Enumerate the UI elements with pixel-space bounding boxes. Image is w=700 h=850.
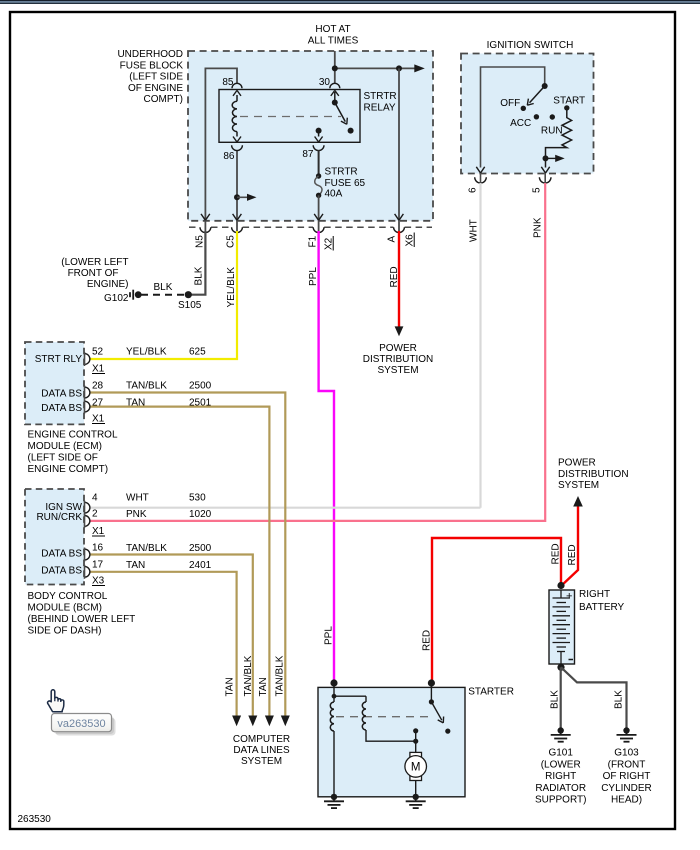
relay pin 86 connector bump — [232, 145, 243, 150]
svg-text:RUN/CRK: RUN/CRK — [36, 512, 82, 523]
wire RED battery to power distribution — [561, 506, 578, 586]
svg-text:STARTER: STARTER — [468, 687, 514, 698]
svg-text:FUSE BLOCK: FUSE BLOCK — [120, 60, 184, 71]
wire BLK from pin N5 to splice S105 — [189, 231, 205, 295]
svg-text:HEAD): HEAD) — [611, 795, 642, 806]
svg-text:2401: 2401 — [189, 560, 212, 571]
svg-text:PNK: PNK — [532, 217, 543, 238]
wire PPL from pin F1 to starter — [319, 231, 334, 683]
starter dashed link — [336, 716, 432, 718]
ignition resistor RUN-START — [546, 108, 572, 168]
svg-text:52: 52 — [92, 347, 104, 358]
fuse block bottom pin arrows — [201, 214, 205, 220]
svg-text:5: 5 — [532, 187, 543, 193]
svg-text:MODULE (ECM): MODULE (ECM) — [28, 441, 102, 452]
relay pin 30 terminal — [334, 92, 336, 103]
BCM label — [28, 591, 136, 637]
svg-text:2501: 2501 — [189, 398, 212, 409]
svg-text:SYSTEM: SYSTEM — [377, 365, 418, 376]
wire YEL/BLK from pin C5 to ECM pin 52 — [90, 231, 237, 359]
svg-text:RED: RED — [422, 630, 433, 651]
ignition switch arm pivot — [542, 83, 548, 89]
svg-text:va263530: va263530 — [57, 718, 105, 730]
label HOT AT ALL TIMES — [308, 24, 359, 46]
svg-text:FUSE 65: FUSE 65 — [325, 178, 366, 189]
svg-text:263530: 263530 — [18, 814, 52, 825]
svg-text:40A: 40A — [325, 189, 343, 200]
svg-text:COMPT): COMPT) — [144, 94, 183, 105]
fuse STRTR FUSE 65 40A element — [318, 150, 320, 176]
window top edge bar — [0, 0, 700, 1]
relay switch arm — [335, 103, 346, 122]
power distribution system label (top) — [363, 343, 434, 376]
svg-text:START: START — [553, 96, 585, 107]
svg-text:A: A — [387, 236, 398, 243]
ignition switch box — [461, 54, 594, 174]
fuse block connector face dashed line — [189, 226, 200, 228]
svg-text:UNDERHOOD: UNDERHOOD — [117, 49, 183, 60]
svg-text:X1: X1 — [92, 364, 105, 375]
svg-text:RED: RED — [567, 544, 578, 565]
G103 label — [601, 748, 652, 806]
wire BLK battery to G103 — [561, 667, 627, 728]
svg-text:C5: C5 — [225, 235, 236, 248]
svg-text:16: 16 — [92, 542, 104, 553]
svg-text:RED: RED — [550, 543, 561, 564]
starter motor M — [410, 752, 422, 757]
starter motor ground wire — [415, 781, 417, 797]
mouse cursor — [48, 690, 64, 712]
svg-text:PNK: PNK — [126, 509, 147, 520]
relay pin 85 connector bump — [232, 83, 242, 88]
svg-text:4: 4 — [92, 493, 98, 504]
svg-text:ENGINE COMPT): ENGINE COMPT) — [28, 464, 109, 475]
svg-text:MODULE (BCM): MODULE (BCM) — [28, 603, 102, 614]
svg-text:X1: X1 — [92, 414, 105, 425]
splice S105 — [185, 291, 192, 298]
relay dashed actuation link — [240, 116, 341, 118]
svg-text:BLK: BLK — [614, 690, 625, 709]
svg-text:COMPUTER: COMPUTER — [233, 734, 290, 745]
svg-text:SYSTEM: SYSTEM — [241, 756, 282, 767]
svg-text:(BEHIND LOWER LEFT: (BEHIND LOWER LEFT — [28, 614, 136, 625]
wire PNK from BCM pin 2 to ignition pin 5 — [90, 183, 545, 521]
svg-text:STRTR: STRTR — [325, 167, 358, 178]
node junction on B+ at pin A column — [396, 65, 402, 71]
battery bottom terminal — [557, 651, 565, 653]
wire B+ horizontal branch with arrow to other circuits — [335, 67, 415, 69]
svg-text:17: 17 — [92, 560, 104, 571]
svg-text:YEL/BLK: YEL/BLK — [126, 347, 167, 358]
relay coil (pins 85-86) — [236, 95, 238, 101]
ECM box — [25, 342, 84, 424]
svg-text:SYSTEM: SYSTEM — [558, 480, 599, 491]
svg-text:YEL/BLK: YEL/BLK — [226, 267, 237, 308]
ground G101 — [558, 727, 564, 733]
svg-text:86: 86 — [223, 151, 235, 162]
wire RED battery to starter — [432, 538, 561, 683]
wire stubs through connector — [204, 220, 206, 231]
computer data lines system label — [233, 734, 290, 767]
battery plates — [560, 590, 562, 598]
svg-text:BODY CONTROL: BODY CONTROL — [28, 591, 108, 602]
starter switch arm from battery terminal — [430, 683, 432, 702]
svg-text:FRONT OF: FRONT OF — [68, 268, 119, 279]
junction and branch arrow on pin 86 wire — [234, 194, 240, 200]
connector bumps pins N5 C5 F1 A — [200, 227, 211, 232]
svg-text:85: 85 — [222, 77, 234, 88]
svg-text:30: 30 — [319, 77, 331, 88]
starter solenoid pull-in coil — [330, 702, 334, 731]
svg-text:WHT: WHT — [468, 219, 479, 242]
svg-text:M: M — [411, 761, 421, 773]
svg-text:DISTRIBUTION: DISTRIBUTION — [363, 354, 434, 365]
battery node top — [557, 582, 564, 589]
svg-text:OF ENGINE: OF ENGINE — [128, 83, 183, 94]
wire RED from pin A to power distribution — [398, 231, 400, 327]
svg-text:530: 530 — [189, 493, 206, 504]
right battery box — [549, 590, 575, 664]
svg-text:(LOWER LEFT: (LOWER LEFT — [61, 257, 128, 268]
svg-text:TAN/BLK: TAN/BLK — [126, 381, 167, 392]
underhood fuse block box — [188, 51, 433, 221]
svg-text:SUPPORT): SUPPORT) — [535, 795, 587, 806]
svg-text:DATA BS: DATA BS — [41, 403, 82, 414]
ECM label — [28, 430, 118, 476]
ignition switch internal wire to pin 6 — [481, 67, 545, 168]
svg-text:RELAY: RELAY — [364, 102, 396, 113]
svg-text:CYLINDER: CYLINDER — [601, 783, 652, 794]
starter switch fixed contact — [413, 728, 418, 733]
svg-text:OFF: OFF — [500, 98, 520, 109]
svg-text:G101: G101 — [548, 748, 573, 759]
svg-text:SIDE OF DASH): SIDE OF DASH) — [28, 626, 102, 637]
fuse label — [325, 167, 366, 200]
starter ground left — [331, 794, 337, 800]
wire fuse output to pin F1 — [318, 195, 320, 219]
starter terminal node RED — [428, 679, 435, 686]
underhood fuse block label — [117, 49, 183, 105]
svg-text:G103: G103 — [614, 748, 639, 759]
ignition output junction — [543, 155, 549, 161]
ignition branch arrow — [546, 157, 556, 159]
svg-text:G102: G102 — [104, 293, 129, 304]
svg-text:STRT RLY: STRT RLY — [35, 354, 83, 365]
svg-text:IGNITION SWITCH: IGNITION SWITCH — [487, 40, 574, 51]
svg-text:DATA BS: DATA BS — [41, 389, 82, 400]
tooltip shadow — [56, 718, 116, 736]
svg-text:2500: 2500 — [189, 381, 212, 392]
svg-text:RIGHT: RIGHT — [545, 771, 576, 782]
wire B+ feed from top into relay pin 30 — [334, 51, 336, 84]
svg-text:RED: RED — [389, 266, 400, 287]
svg-text:N5: N5 — [194, 235, 205, 248]
wire TAN 2501 from ECM pin 27 — [90, 407, 269, 716]
svg-text:PPL: PPL — [308, 267, 319, 286]
svg-text:(FRONT: (FRONT — [608, 759, 646, 770]
svg-text:1020: 1020 — [189, 509, 212, 520]
contact OFF — [521, 106, 526, 111]
battery label RIGHT BATTERY — [579, 589, 625, 613]
dashed BLK wire to G102 — [141, 294, 185, 296]
svg-text:X1: X1 — [92, 526, 105, 537]
contact START — [564, 105, 569, 110]
wire WHT from BCM pin 4 to ignition pin 6 — [90, 507, 481, 509]
ground G102 symbol — [135, 291, 142, 298]
svg-text:DISTRIBUTION: DISTRIBUTION — [558, 469, 629, 480]
contact RUN — [550, 114, 555, 119]
computer data lines arrows — [232, 716, 241, 727]
svg-text:DATA LINES: DATA LINES — [233, 745, 290, 756]
svg-text:TAN/BLK: TAN/BLK — [243, 655, 254, 696]
ignition switch arm to OFF — [530, 86, 545, 103]
wire TAN/BLK 2500 from BCM pin 16 — [90, 555, 253, 717]
wire TAN/BLK 2500 from ECM pin 28 — [90, 393, 285, 717]
svg-text:OF RIGHT: OF RIGHT — [603, 771, 651, 782]
svg-text:HOT AT: HOT AT — [315, 24, 350, 35]
battery node bottom — [557, 664, 564, 671]
starter coil return wire — [366, 730, 416, 741]
svg-text:TAN: TAN — [258, 677, 269, 696]
power distribution system label (right) — [558, 458, 629, 492]
starter terminal node PPL — [330, 679, 337, 686]
svg-text:2: 2 — [92, 508, 98, 519]
svg-text:6: 6 — [468, 187, 479, 193]
G102 label — [61, 257, 129, 304]
svg-text:TAN: TAN — [126, 398, 145, 409]
svg-text:BLK: BLK — [550, 690, 561, 709]
svg-text:87: 87 — [302, 149, 314, 160]
svg-text:ENGINE): ENGINE) — [87, 279, 129, 290]
svg-text:DATA BS: DATA BS — [41, 549, 82, 560]
svg-text:WHT: WHT — [126, 493, 149, 504]
starter relay label — [364, 91, 397, 113]
svg-text:S105: S105 — [178, 300, 202, 311]
starter switch rest contact — [445, 729, 450, 734]
wire pin A feed down — [398, 68, 400, 219]
svg-text:BLK: BLK — [194, 266, 205, 285]
svg-text:(LOWER: (LOWER — [541, 759, 581, 770]
svg-text:TAN: TAN — [126, 560, 145, 571]
svg-text:POWER: POWER — [379, 343, 417, 354]
svg-text:RIGHT: RIGHT — [579, 589, 610, 600]
svg-text:RUN: RUN — [541, 125, 563, 136]
starter ground right — [413, 794, 419, 800]
contact ACC — [534, 114, 539, 119]
svg-text:28: 28 — [92, 381, 104, 392]
svg-text:27: 27 — [92, 398, 104, 409]
wire BLK battery to G101 — [560, 667, 562, 728]
G101 label — [535, 748, 587, 806]
starter relay box — [219, 90, 360, 143]
svg-text:2500: 2500 — [189, 543, 212, 554]
svg-text:STRTR: STRTR — [364, 91, 397, 102]
svg-text:(LEFT SIDE OF: (LEFT SIDE OF — [28, 453, 98, 464]
svg-text:F1: F1 — [308, 235, 319, 247]
svg-text:625: 625 — [189, 347, 206, 358]
svg-text:BATTERY: BATTERY — [579, 602, 625, 613]
svg-text:TAN: TAN — [225, 677, 236, 696]
svg-text:RADIATOR: RADIATOR — [535, 783, 586, 794]
svg-text:+: + — [566, 591, 572, 603]
svg-text:X3: X3 — [92, 576, 105, 587]
relay pin 87 connector bump — [313, 145, 324, 150]
relay pin 30 connector bump — [330, 83, 340, 88]
relay pin 87 contact — [316, 128, 322, 134]
svg-text:PPL: PPL — [323, 626, 334, 645]
wire hook from relay pin 85 to pin N5 — [205, 68, 237, 219]
svg-text:POWER: POWER — [558, 458, 596, 469]
svg-text:TAN/BLK: TAN/BLK — [275, 655, 286, 696]
ignition connector bumps pins 6 and 5 — [475, 177, 487, 183]
wire TAN 2401 from BCM pin 17 — [90, 572, 237, 716]
ground G103 — [623, 727, 629, 733]
tooltip va263530 — [52, 714, 112, 732]
node junction on B+ at pin 30 column — [332, 65, 338, 71]
svg-text:DATA BS: DATA BS — [41, 566, 82, 577]
svg-text:ALL TIMES: ALL TIMES — [308, 35, 359, 46]
starter solenoid hold-in coil — [362, 702, 366, 730]
starter solenoid feed wire — [333, 683, 335, 702]
wire relay pin 86 down to pin C5 — [236, 150, 238, 220]
svg-text:ACC: ACC — [510, 118, 531, 129]
BCM box — [25, 489, 84, 585]
svg-text:(LEFT SIDE: (LEFT SIDE — [129, 72, 183, 83]
relay arm rest contact — [348, 128, 354, 134]
starter box — [318, 687, 465, 796]
svg-text:TAN/BLK: TAN/BLK — [126, 543, 167, 554]
svg-text:ENGINE CONTROL: ENGINE CONTROL — [28, 430, 118, 441]
svg-text:BLK: BLK — [154, 282, 173, 293]
